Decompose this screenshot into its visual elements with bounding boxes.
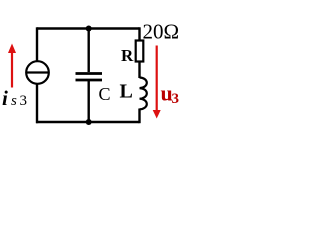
node junction bottom: [86, 119, 92, 125]
node junction top: [86, 26, 92, 32]
wire top: [37, 27, 140, 29]
svg-text:i: i: [2, 86, 8, 110]
wire capacitor branch lower: [87, 81, 89, 122]
arrow is3 (red, up): [8, 44, 16, 88]
wire capacitor branch upper: [87, 29, 89, 73]
arrow u3 (red, down): [153, 46, 161, 119]
svg-text:C: C: [99, 84, 111, 104]
inductor L coil: [140, 78, 147, 110]
current source bar: [26, 71, 49, 73]
svg-text:L: L: [120, 81, 133, 103]
wire bottom: [36, 121, 140, 123]
svg-text:s: s: [11, 93, 17, 109]
svg-text:20Ω: 20Ω: [143, 20, 180, 44]
wire inductor to bottom: [138, 109, 140, 124]
svg-text:3: 3: [20, 93, 28, 109]
svg-text:R: R: [121, 46, 134, 65]
wire left branch lower: [36, 84, 38, 124]
capacitor C plates: [76, 72, 103, 75]
wire left branch upper: [36, 27, 38, 61]
svg-text:3: 3: [172, 91, 180, 107]
wire resistor to inductor: [138, 62, 140, 79]
current source is3: [26, 61, 49, 84]
resistor R box: [136, 41, 144, 62]
wire right branch upper: [138, 27, 140, 40]
